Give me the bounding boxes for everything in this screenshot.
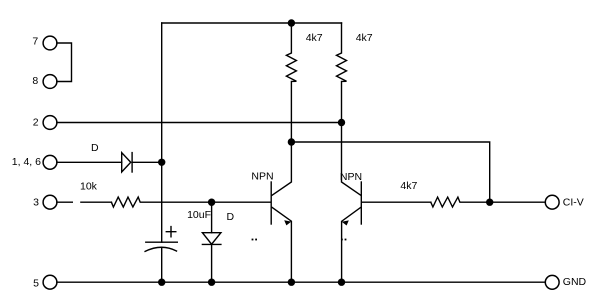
svg-text:2: 2 xyxy=(33,117,39,129)
svg-text:GND: GND xyxy=(563,276,587,288)
svg-text:4k7: 4k7 xyxy=(306,32,323,44)
svg-text:8: 8 xyxy=(32,75,38,87)
svg-text:D: D xyxy=(227,211,235,223)
svg-text:4k7: 4k7 xyxy=(356,32,373,44)
svg-text:7: 7 xyxy=(32,36,38,48)
svg-text:5: 5 xyxy=(33,277,39,289)
svg-text:1, 4, 6: 1, 4, 6 xyxy=(12,156,41,168)
svg-text:NPN: NPN xyxy=(251,170,273,182)
svg-text:10uF: 10uF xyxy=(187,209,211,221)
svg-text:NPN: NPN xyxy=(340,171,362,183)
svg-text:4k7: 4k7 xyxy=(400,180,417,192)
svg-text:CI-V: CI-V xyxy=(563,197,584,209)
svg-text:3: 3 xyxy=(33,197,39,209)
svg-text:D: D xyxy=(91,142,99,154)
svg-text:10k: 10k xyxy=(80,181,98,193)
